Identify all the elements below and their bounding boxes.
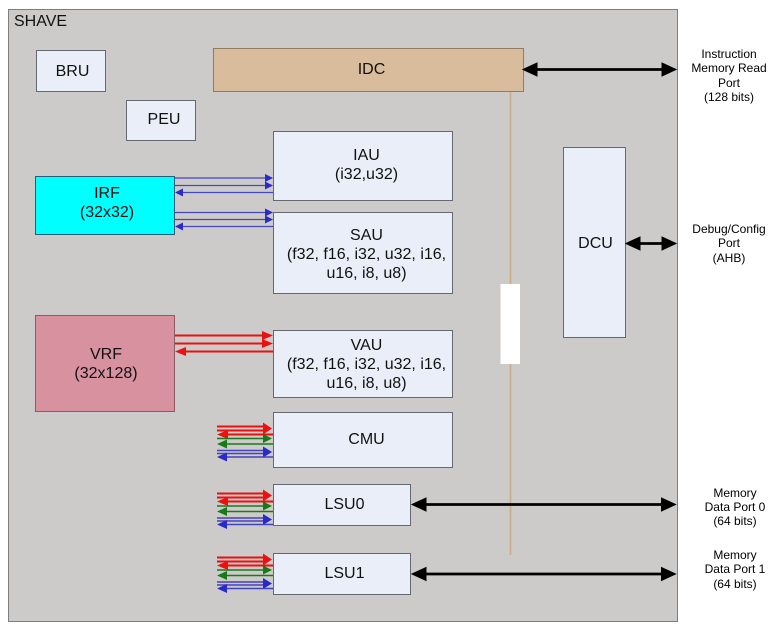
wire IRF ports to LSU1 (green) <box>217 566 273 581</box>
wire IRF to IAU read ports <box>175 174 273 190</box>
wire VRF ports to LSU1 (red) <box>217 554 273 571</box>
label Memory Data Port 1 <box>680 548 773 591</box>
label Instruction Memory Read Port <box>674 47 773 105</box>
block VAU <box>273 330 453 398</box>
block PEU <box>126 100 196 141</box>
wire IAU to IRF writeback <box>175 189 273 197</box>
block VRF <box>35 315 175 412</box>
node bus gap marker <box>501 284 521 364</box>
wire IRF ports to CMU (green) <box>217 434 273 449</box>
wire VRF ports to CMU (red) <box>217 423 273 440</box>
block BRU <box>36 50 106 92</box>
wire SRF ports to LSU0 (blue) <box>217 514 273 529</box>
wire VAU to VRF writeback <box>175 347 273 356</box>
label SHAVE <box>14 12 67 31</box>
block IRF <box>35 176 175 235</box>
wire instruction bus vertical <box>510 92 512 555</box>
arrow LSU0 to Memory Data Port 0 <box>412 498 676 511</box>
block CMU <box>273 412 453 468</box>
wire VRF to VAU read ports <box>175 331 273 348</box>
block IAU <box>273 131 453 201</box>
wire IRF ports to LSU0 (green) <box>217 502 273 517</box>
wire VRF ports to LSU0 (red) <box>217 490 273 507</box>
wire SRF ports to LSU1 (blue) <box>217 578 273 593</box>
block DCU <box>563 147 626 338</box>
arrow DCU to Debug/Config Port <box>626 237 676 250</box>
arrow IDC to Instruction Memory Read Port <box>523 63 676 76</box>
block LSU1 <box>273 553 411 595</box>
wire SAU to IRF writeback <box>175 223 273 231</box>
wire SRF ports to CMU (blue) <box>217 447 273 462</box>
label Memory Data Port 0 <box>680 486 773 529</box>
block LSU0 <box>273 484 411 526</box>
arrow LSU1 to Memory Data Port 1 <box>412 568 676 581</box>
block SAU <box>273 212 453 294</box>
label Debug/Config Port <box>674 222 773 265</box>
wire IRF to SAU read ports <box>175 209 273 224</box>
block IDC <box>213 48 524 92</box>
